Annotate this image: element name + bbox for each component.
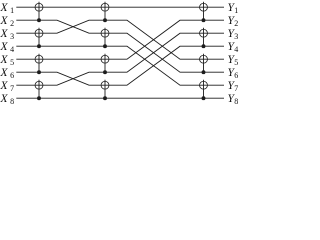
svg-text:1: 1 xyxy=(234,6,238,15)
svg-text:X: X xyxy=(0,54,9,66)
svg-text:4: 4 xyxy=(234,45,238,54)
svg-text:5: 5 xyxy=(234,58,238,67)
svg-text:5: 5 xyxy=(10,58,14,67)
svg-text:X: X xyxy=(0,28,9,40)
svg-text:8: 8 xyxy=(234,97,238,104)
svg-text:2: 2 xyxy=(10,19,14,28)
svg-text:6: 6 xyxy=(10,71,14,80)
svg-text:8: 8 xyxy=(10,97,14,104)
svg-text:X: X xyxy=(0,93,9,104)
svg-text:7: 7 xyxy=(10,84,14,93)
svg-text:X: X xyxy=(0,67,9,79)
svg-text:3: 3 xyxy=(10,32,14,41)
svg-text:2: 2 xyxy=(234,19,238,28)
svg-text:1: 1 xyxy=(10,6,14,15)
svg-text:X: X xyxy=(0,41,9,53)
svg-text:X: X xyxy=(0,80,9,92)
svg-text:3: 3 xyxy=(234,32,238,41)
svg-text:X: X xyxy=(0,2,9,14)
svg-text:4: 4 xyxy=(10,45,14,54)
svg-text:6: 6 xyxy=(234,71,238,80)
svg-text:7: 7 xyxy=(234,84,238,93)
svg-text:X: X xyxy=(0,15,9,27)
